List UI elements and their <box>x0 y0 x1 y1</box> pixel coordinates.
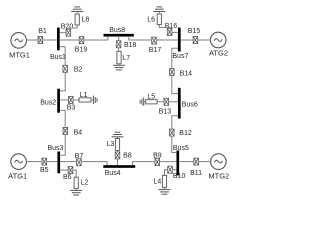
label B11 <box>190 170 202 177</box>
wire L8 to ground <box>76 12 78 15</box>
wire L6 to ground <box>158 12 160 15</box>
label ATG2 <box>209 49 228 58</box>
breaker B9 <box>155 159 160 166</box>
ground L1 <box>93 96 97 105</box>
wire L4 to ground <box>164 187 166 189</box>
wire L5 to ground <box>144 101 146 103</box>
wire ATG1 to B5 <box>26 161 42 163</box>
bus Bus8 <box>104 34 134 37</box>
wire L7 to ground <box>118 64 120 66</box>
svg-text:L3: L3 <box>107 141 115 148</box>
breaker B20 <box>66 29 71 36</box>
wire Bus2 to B4 <box>60 110 65 127</box>
wire Bus8 to B17 <box>129 37 151 40</box>
svg-text:Bus4: Bus4 <box>105 170 121 177</box>
breaker B11 <box>194 158 199 165</box>
label B17 <box>149 47 162 54</box>
label Bus4 <box>105 170 121 177</box>
ground L7 <box>113 65 125 70</box>
svg-text:B13: B13 <box>159 108 172 115</box>
label L2 <box>81 179 89 186</box>
wire Bus1 to B20 <box>60 32 66 34</box>
generator MTG1 <box>11 33 27 49</box>
label L1 <box>80 92 88 99</box>
label L8 <box>82 17 90 24</box>
wire Bus7 to B15 <box>181 39 193 41</box>
label Bus2 <box>40 99 56 106</box>
ground L6 <box>153 7 165 12</box>
wire Bus6 to B13 <box>169 101 178 103</box>
wire B14 to Bus6 <box>172 75 178 93</box>
wire L3 to ground <box>117 137 119 139</box>
load L2 <box>74 177 78 188</box>
svg-text:L2: L2 <box>81 179 89 186</box>
svg-text:L7: L7 <box>122 55 130 62</box>
label ATG1 <box>8 171 27 180</box>
svg-text:MTG2: MTG2 <box>208 172 229 181</box>
label B7 <box>75 153 84 160</box>
svg-text:B9: B9 <box>153 152 162 159</box>
breaker B1 <box>38 37 43 44</box>
label B5 <box>40 167 49 174</box>
breaker B12 <box>170 129 175 136</box>
wire B12 to Bus5 <box>172 136 177 153</box>
bus Bus6 <box>178 88 181 119</box>
svg-text:ATG2: ATG2 <box>209 49 228 58</box>
wire B16 to L6 <box>159 25 169 29</box>
label MTG1 <box>9 51 30 60</box>
breaker B10 <box>168 166 173 173</box>
wire B7 to Bus4 <box>81 162 107 166</box>
label L7 <box>122 55 130 62</box>
label Bus5 <box>173 145 189 152</box>
svg-text:Bus5: Bus5 <box>173 145 189 152</box>
label Bus1 <box>50 54 66 61</box>
wire Bus3 to B6 <box>60 169 68 171</box>
ground L8 <box>71 7 83 12</box>
label Bus7 <box>172 53 188 60</box>
svg-text:B14: B14 <box>180 71 193 78</box>
wire B3 to L1 <box>73 99 79 101</box>
label B2 <box>74 67 83 74</box>
svg-text:L1: L1 <box>80 92 88 99</box>
label L5 <box>147 94 155 101</box>
generator MTG2 <box>211 154 227 170</box>
svg-text:B4: B4 <box>74 130 83 137</box>
svg-text:Bus7: Bus7 <box>172 53 188 60</box>
ground L2 <box>70 190 82 195</box>
wire B1 to Bus1 <box>43 39 57 41</box>
breaker B17 <box>152 37 157 44</box>
wire Bus7 to B16 <box>172 31 178 33</box>
breaker B16 <box>167 29 172 36</box>
load L7 <box>117 51 121 64</box>
svg-text:B17: B17 <box>149 47 162 54</box>
breaker B18 <box>116 41 121 48</box>
svg-text:Bus3: Bus3 <box>48 145 64 152</box>
svg-text:L4: L4 <box>154 178 162 185</box>
wire Bus1 to B19 <box>60 39 79 41</box>
wire L1 to ground <box>91 99 93 101</box>
ground L5 <box>140 98 144 107</box>
label L6 <box>147 17 155 24</box>
svg-text:MTG1: MTG1 <box>9 51 30 60</box>
svg-text:Bus6: Bus6 <box>182 101 198 108</box>
svg-text:B18: B18 <box>124 42 137 49</box>
svg-text:B3: B3 <box>67 105 76 112</box>
label B12 <box>179 130 192 137</box>
svg-text:ATG1: ATG1 <box>8 171 27 180</box>
bus Bus1 <box>57 28 60 51</box>
generator ATG2 <box>210 32 226 48</box>
label B10 <box>173 173 186 180</box>
wire B10 to L4 <box>165 170 168 176</box>
wire B6 to L2 <box>73 170 76 177</box>
label B18 <box>124 42 137 49</box>
label L3 <box>107 141 115 148</box>
svg-text:L5: L5 <box>147 94 155 101</box>
svg-text:B7: B7 <box>75 153 84 160</box>
breaker B5 <box>42 158 47 165</box>
wire Bus4 to B9 <box>133 162 155 166</box>
wire B19 to Bus8 <box>84 37 108 40</box>
svg-text:L8: L8 <box>82 17 90 24</box>
wire B8 to L3 <box>117 150 119 152</box>
label B3 <box>67 105 76 112</box>
load L3 <box>115 139 119 151</box>
label L4 <box>154 178 162 185</box>
wire MTG1 to B1 <box>26 39 38 41</box>
wire B18 to L7 <box>118 48 120 52</box>
label MTG2 <box>208 172 229 181</box>
bus Bus7 <box>178 28 181 52</box>
generator ATG1 <box>11 154 27 170</box>
wire B17 to Bus7 <box>156 39 178 41</box>
svg-text:Bus8: Bus8 <box>109 27 125 34</box>
ground L4 <box>159 190 171 195</box>
label B20 <box>61 23 74 30</box>
breaker B14 <box>170 69 175 76</box>
wire B5 to Bus3 <box>47 161 58 163</box>
wire Bus5 to B10 <box>173 169 176 171</box>
breaker B8 <box>115 152 120 159</box>
svg-text:B20: B20 <box>61 23 74 30</box>
label Bus6 <box>182 101 198 108</box>
label B16 <box>165 23 178 30</box>
label B4 <box>74 130 83 137</box>
wire Bus2 to B3 <box>60 99 68 101</box>
svg-text:B5: B5 <box>40 167 49 174</box>
bus Bus3 <box>57 152 60 174</box>
wire B11 to MTG2 <box>199 161 212 163</box>
svg-text:B8: B8 <box>123 153 132 160</box>
svg-text:B10: B10 <box>173 173 186 180</box>
wire L2 to ground <box>75 189 77 191</box>
wire B9 to Bus5 <box>160 161 177 163</box>
label Bus8 <box>109 27 125 34</box>
breaker B13 <box>164 98 169 105</box>
svg-text:B11: B11 <box>190 170 202 177</box>
breaker B3 <box>69 96 74 103</box>
svg-text:B15: B15 <box>188 28 201 35</box>
svg-text:B16: B16 <box>165 23 178 30</box>
ground L3 <box>112 132 124 137</box>
load L5 <box>146 100 157 104</box>
svg-text:B2: B2 <box>74 67 83 74</box>
load L8 <box>75 14 79 25</box>
label B9 <box>153 152 162 159</box>
wire Bus8 to B18 <box>118 37 120 41</box>
label B13 <box>159 108 172 115</box>
bus Bus5 <box>176 151 179 176</box>
wire B20 to L8 <box>68 25 77 30</box>
breaker B19 <box>79 37 84 44</box>
label B15 <box>188 28 201 35</box>
breaker B4 <box>63 127 68 134</box>
load L4 <box>162 175 166 187</box>
wire Bus3 to B7 <box>60 161 76 163</box>
label B6 <box>63 174 72 181</box>
wire Bus6 to B12 <box>172 116 178 130</box>
svg-text:L6: L6 <box>147 17 155 24</box>
label B8 <box>123 153 132 160</box>
wire Bus4 to B8 <box>117 159 119 166</box>
wire Bus5 to B11 <box>179 161 194 163</box>
wire B2 to Bus2 <box>60 72 65 91</box>
wire Bus7 to B14 <box>172 48 178 68</box>
wire B4 to Bus3 <box>60 134 65 155</box>
load L6 <box>157 14 161 25</box>
svg-text:B1: B1 <box>38 28 47 35</box>
wire Bus1 to B2 <box>60 47 65 66</box>
svg-text:B12: B12 <box>179 130 192 137</box>
svg-text:B6: B6 <box>63 174 72 181</box>
load L1 <box>79 98 91 102</box>
label B14 <box>180 71 193 78</box>
breaker B7 <box>77 159 82 166</box>
bus Bus4 <box>103 165 135 168</box>
label B1 <box>38 28 47 35</box>
wire B15 to ATG2 <box>198 39 211 41</box>
wire B13 to L5 <box>157 101 164 103</box>
svg-text:Bus2: Bus2 <box>40 99 56 106</box>
breaker B15 <box>193 37 198 44</box>
svg-text:B19: B19 <box>75 47 88 54</box>
bus Bus2 <box>57 89 60 113</box>
svg-text:Bus1: Bus1 <box>50 54 66 61</box>
label B19 <box>75 47 88 54</box>
label Bus3 <box>48 145 64 152</box>
breaker B6 <box>68 167 73 174</box>
breaker B2 <box>63 65 68 72</box>
